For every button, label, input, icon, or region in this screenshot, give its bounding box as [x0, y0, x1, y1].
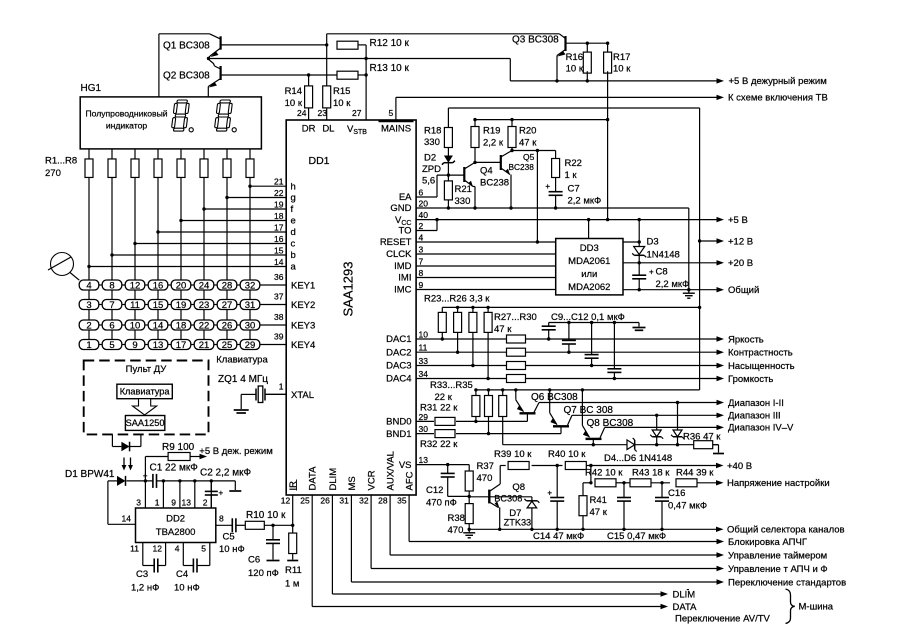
svg-text:10 нФ: 10 нФ	[174, 583, 200, 594]
svg-text:Q1 BC308: Q1 BC308	[163, 40, 210, 51]
svg-text:32: 32	[245, 281, 256, 292]
svg-text:2,2 мкФ: 2,2 мкФ	[656, 279, 690, 290]
svg-text:BC238: BC238	[509, 162, 535, 172]
svg-text:11: 11	[130, 300, 140, 311]
svg-text:MAINS: MAINS	[381, 124, 411, 135]
svg-text:VS: VS	[399, 460, 412, 471]
svg-text:DAC3: DAC3	[386, 361, 411, 372]
svg-text:MS: MS	[347, 476, 358, 490]
svg-text:+: +	[545, 182, 550, 191]
svg-text:470 пФ: 470 пФ	[426, 498, 457, 509]
svg-text:22: 22	[274, 188, 284, 198]
svg-text:9: 9	[171, 498, 176, 508]
svg-text:4: 4	[175, 544, 180, 554]
svg-text:4: 4	[419, 233, 424, 243]
svg-text:10 к: 10 к	[566, 64, 584, 75]
svg-text:b: b	[291, 250, 296, 261]
svg-text:6: 6	[109, 321, 114, 332]
svg-text:R37: R37	[477, 461, 494, 472]
svg-text:ZQ1 4 МГц: ZQ1 4 МГц	[218, 374, 268, 385]
svg-text:1,2 нФ: 1,2 нФ	[131, 583, 159, 594]
svg-text:BND1: BND1	[386, 429, 411, 440]
svg-text:DLIM: DLIM	[328, 468, 339, 491]
svg-text:IR: IR	[288, 481, 299, 491]
svg-text:330: 330	[424, 137, 440, 148]
svg-text:12: 12	[130, 281, 141, 292]
svg-text:DAC2: DAC2	[386, 347, 411, 358]
svg-text:a: a	[291, 262, 297, 273]
svg-text:+5 В дежурный режим: +5 В дежурный режим	[729, 76, 827, 87]
svg-text:AFC: AFC	[405, 471, 416, 490]
svg-text:SAA1293: SAA1293	[341, 262, 356, 317]
svg-text:BC238: BC238	[480, 177, 509, 188]
svg-text:Напряжение настройки: Напряжение настройки	[727, 478, 830, 489]
svg-text:5: 5	[389, 108, 394, 118]
svg-text:Общий селектора каналов: Общий селектора каналов	[727, 525, 845, 536]
svg-text:7: 7	[109, 300, 114, 311]
svg-text:3: 3	[419, 245, 424, 255]
svg-text:+5 В: +5 В	[728, 215, 748, 226]
svg-text:KEY1: KEY1	[291, 280, 315, 291]
svg-text:19: 19	[176, 300, 187, 311]
svg-text:47 к: 47 к	[590, 507, 608, 518]
svg-text:R33...R35: R33...R35	[430, 380, 473, 391]
svg-text:IMD: IMD	[394, 261, 412, 272]
svg-text:R15: R15	[333, 86, 350, 97]
svg-text:17: 17	[274, 223, 284, 233]
svg-text:12: 12	[281, 496, 291, 506]
svg-text:D1 BPW41: D1 BPW41	[65, 469, 115, 480]
svg-text:g: g	[291, 193, 296, 204]
svg-text:R17: R17	[613, 52, 630, 63]
svg-text:Пульт ДУ: Пульт ДУ	[126, 364, 168, 375]
svg-text:Блокировка АПЧГ: Блокировка АПЧГ	[728, 537, 807, 548]
svg-text:29: 29	[245, 340, 256, 351]
svg-text:индикатор: индикатор	[106, 121, 148, 131]
svg-text:+5 В деж. режим: +5 В деж. режим	[199, 446, 272, 457]
svg-text:DAC1: DAC1	[386, 334, 411, 345]
svg-text:MDA2061: MDA2061	[568, 256, 610, 267]
svg-text:1N4148: 1N4148	[647, 250, 680, 261]
svg-text:470: 470	[448, 525, 464, 536]
svg-text:12: 12	[153, 544, 163, 554]
svg-text:+: +	[219, 489, 224, 498]
svg-text:h: h	[291, 181, 296, 192]
svg-text:35: 35	[397, 496, 407, 506]
svg-text:R18: R18	[424, 126, 441, 137]
svg-text:1: 1	[86, 340, 91, 351]
svg-text:2: 2	[419, 221, 424, 231]
svg-text:ZPD: ZPD	[422, 164, 441, 175]
svg-text:+: +	[547, 489, 552, 498]
svg-text:+20 В: +20 В	[728, 258, 753, 269]
svg-text:10: 10	[419, 330, 429, 340]
svg-text:13: 13	[419, 455, 429, 465]
svg-text:16: 16	[274, 234, 284, 244]
svg-text:R27...R30: R27...R30	[494, 312, 537, 323]
svg-text:27: 27	[352, 108, 362, 118]
svg-text:XTAL: XTAL	[291, 390, 314, 401]
svg-text:C1 22 мкФ: C1 22 мкФ	[150, 463, 199, 474]
svg-text:2,2 к: 2,2 к	[483, 138, 504, 149]
svg-text:D2: D2	[424, 153, 436, 164]
svg-text:DLIM: DLIM	[673, 589, 696, 600]
svg-text:330: 330	[455, 196, 471, 207]
svg-text:30: 30	[419, 424, 429, 434]
svg-text:Q4: Q4	[480, 166, 493, 177]
svg-text:Яркость: Яркость	[728, 334, 764, 345]
svg-text:R1...R8: R1...R8	[45, 156, 77, 167]
svg-text:28: 28	[378, 496, 388, 506]
svg-text:5: 5	[201, 544, 206, 554]
svg-text:18: 18	[274, 211, 284, 221]
svg-text:VCR: VCR	[367, 470, 378, 490]
svg-text:37: 37	[274, 292, 284, 302]
svg-text:C4: C4	[176, 569, 188, 580]
svg-text:120 пФ: 120 пФ	[248, 568, 279, 579]
svg-text:Клавиатура: Клавиатура	[216, 355, 268, 366]
svg-text:DAC4: DAC4	[386, 374, 411, 385]
svg-text:DATA: DATA	[673, 602, 698, 613]
svg-text:e: e	[291, 216, 296, 227]
svg-text:Q6 BC308: Q6 BC308	[531, 392, 578, 403]
svg-text:R23...R26 3,3 к: R23...R26 3,3 к	[424, 294, 490, 305]
svg-text:1 м: 1 м	[285, 579, 299, 590]
svg-text:R9 100: R9 100	[162, 442, 195, 453]
svg-text:1: 1	[279, 382, 284, 392]
svg-text:18: 18	[176, 321, 187, 332]
svg-text:DD3: DD3	[580, 243, 599, 254]
svg-text:R39 10 к: R39 10 к	[494, 449, 532, 460]
svg-text:23: 23	[199, 300, 210, 311]
svg-text:11: 11	[419, 343, 428, 353]
svg-text:C2 2,2 мкФ: C2 2,2 мкФ	[200, 468, 251, 479]
svg-text:R20: R20	[519, 126, 536, 137]
svg-text:CLCK: CLCK	[386, 249, 412, 260]
svg-text:10 нФ: 10 нФ	[219, 544, 245, 555]
svg-text:c: c	[291, 239, 296, 250]
svg-text:24: 24	[297, 108, 307, 118]
svg-text:8: 8	[419, 268, 424, 278]
svg-text:Клавиатура: Клавиатура	[120, 387, 171, 397]
svg-text:IMI: IMI	[398, 273, 411, 284]
svg-text:10: 10	[130, 321, 141, 332]
svg-text:Общий: Общий	[728, 285, 759, 296]
svg-text:10 к: 10 к	[613, 64, 631, 75]
svg-text:23: 23	[318, 108, 328, 118]
svg-text:22 к: 22 к	[435, 392, 453, 403]
svg-text:DD2: DD2	[166, 514, 185, 525]
svg-text:4: 4	[86, 281, 91, 292]
svg-text:34: 34	[419, 369, 429, 379]
svg-text:3: 3	[136, 498, 141, 508]
svg-text:31: 31	[245, 300, 256, 311]
svg-text:Диапазон III: Диапазон III	[728, 411, 781, 422]
svg-text:Q8: Q8	[512, 482, 525, 493]
svg-text:или: или	[581, 269, 597, 280]
svg-text:D3: D3	[647, 237, 659, 248]
svg-text:2: 2	[203, 498, 208, 508]
svg-text:26: 26	[222, 321, 233, 332]
svg-text:BND0: BND0	[386, 417, 411, 428]
svg-text:Переключение стандартов: Переключение стандартов	[728, 577, 846, 588]
svg-text:R13 10 к: R13 10 к	[370, 63, 410, 74]
svg-text:BC308: BC308	[494, 493, 522, 503]
svg-text:R12 10 к: R12 10 к	[370, 38, 410, 49]
svg-text:EA: EA	[399, 192, 412, 203]
svg-text:21: 21	[199, 340, 210, 351]
svg-text:3: 3	[86, 300, 91, 311]
svg-text:R31 22 к: R31 22 к	[420, 403, 458, 414]
svg-text:15: 15	[274, 246, 284, 256]
svg-text:9: 9	[419, 280, 424, 290]
svg-text:17: 17	[176, 340, 187, 351]
svg-text:+: +	[143, 472, 148, 481]
svg-text:8: 8	[219, 514, 224, 524]
svg-text:MDA2062: MDA2062	[568, 282, 610, 293]
svg-text:24: 24	[199, 281, 210, 292]
svg-text:14: 14	[122, 514, 132, 524]
svg-text:Насыщенность: Насыщенность	[728, 361, 795, 372]
svg-text:d: d	[291, 227, 296, 238]
svg-text:Диапазон I-II: Диапазон I-II	[728, 398, 784, 409]
svg-text:30: 30	[245, 321, 256, 332]
svg-text:31: 31	[339, 496, 349, 506]
svg-text:+40 В: +40 В	[727, 461, 752, 472]
svg-text:11: 11	[130, 544, 139, 554]
svg-text:Q5: Q5	[523, 152, 535, 162]
svg-text:270: 270	[45, 168, 61, 179]
svg-text:R44 39 к: R44 39 к	[676, 467, 714, 478]
svg-text:2,2 мкФ: 2,2 мкФ	[568, 196, 602, 207]
svg-text:f: f	[291, 204, 294, 215]
svg-text:47 к: 47 к	[519, 138, 537, 149]
svg-text:KEY3: KEY3	[291, 320, 315, 331]
svg-text:26: 26	[320, 496, 330, 506]
svg-text:DD1: DD1	[309, 155, 330, 167]
svg-text:0,47 мкФ: 0,47 мкФ	[668, 501, 707, 512]
svg-text:38: 38	[274, 312, 284, 322]
svg-text:21: 21	[274, 177, 284, 187]
svg-text:AUX/VAL: AUX/VAL	[386, 451, 397, 490]
svg-text:SAA1250: SAA1250	[126, 418, 165, 428]
svg-text:C3: C3	[136, 569, 148, 580]
svg-text:Переключение AV/TV: Переключение AV/TV	[675, 614, 771, 625]
svg-text:R40 10 к: R40 10 к	[548, 449, 586, 460]
svg-text:C14 47 мкФ: C14 47 мкФ	[533, 531, 584, 542]
svg-text:KEY2: KEY2	[291, 300, 315, 311]
svg-text:10 к: 10 к	[285, 98, 303, 109]
svg-text:DATA: DATA	[308, 466, 319, 491]
svg-text:13: 13	[182, 498, 192, 508]
svg-text:39: 39	[274, 332, 284, 342]
svg-text:6: 6	[419, 188, 424, 198]
svg-text:15: 15	[153, 300, 164, 311]
svg-text:Диапазон IV–V: Диапазон IV–V	[728, 423, 794, 434]
svg-text:+12 В: +12 В	[728, 236, 753, 247]
svg-text:Q3 BC308: Q3 BC308	[512, 35, 559, 46]
svg-text:R19: R19	[483, 126, 500, 137]
svg-text:36: 36	[274, 272, 284, 282]
svg-text:Q7 BC 308: Q7 BC 308	[564, 405, 614, 416]
svg-text:1: 1	[155, 498, 160, 508]
svg-text:Громкость: Громкость	[728, 374, 773, 385]
svg-text:C5: C5	[223, 532, 235, 543]
svg-text:D4...D6 1N4148: D4...D6 1N4148	[604, 453, 672, 464]
svg-text:R41: R41	[590, 495, 607, 506]
svg-text:5: 5	[109, 340, 114, 351]
svg-text:28: 28	[222, 281, 233, 292]
svg-text:Q2 BC308: Q2 BC308	[163, 71, 210, 82]
svg-text:16: 16	[153, 281, 164, 292]
svg-text:2: 2	[86, 321, 91, 332]
svg-text:R22: R22	[565, 158, 582, 169]
svg-text:27: 27	[222, 300, 233, 311]
svg-text:C8: C8	[656, 267, 668, 278]
svg-text:R32 22 к: R32 22 к	[420, 439, 458, 450]
svg-text:IMC: IMC	[394, 285, 412, 296]
svg-text:TO: TO	[398, 226, 411, 237]
svg-text:14: 14	[274, 257, 284, 267]
svg-text:R14: R14	[285, 86, 302, 97]
svg-text:DL: DL	[322, 124, 334, 135]
svg-text:RESET: RESET	[380, 237, 412, 248]
svg-text:33: 33	[419, 356, 429, 366]
svg-text:22: 22	[199, 321, 210, 332]
svg-text:R21: R21	[455, 184, 472, 195]
svg-text:ZTK33: ZTK33	[504, 517, 532, 527]
svg-text:C6: C6	[248, 555, 260, 566]
svg-text:М-шина: М-шина	[799, 602, 834, 613]
svg-text:C16: C16	[668, 488, 685, 499]
svg-text:TBA2800: TBA2800	[156, 527, 196, 538]
svg-text:13: 13	[153, 340, 164, 351]
svg-text:C12: C12	[426, 485, 443, 496]
svg-text:7: 7	[419, 257, 424, 267]
svg-text:20: 20	[176, 281, 187, 292]
svg-text:R10 10 к: R10 10 к	[246, 510, 286, 521]
svg-text:32: 32	[359, 496, 369, 506]
svg-text:25: 25	[300, 496, 310, 506]
svg-text:Управление таймером: Управление таймером	[728, 550, 827, 561]
svg-text:C15 0,47 мкФ: C15 0,47 мкФ	[607, 531, 666, 542]
svg-text:40: 40	[419, 210, 429, 220]
svg-text:R11: R11	[285, 565, 302, 576]
svg-text:R38: R38	[448, 513, 465, 524]
svg-text:Полупроводниковый: Полупроводниковый	[85, 109, 167, 119]
svg-text:8: 8	[109, 281, 114, 292]
svg-text:1 к: 1 к	[565, 170, 578, 181]
svg-text:20: 20	[419, 199, 429, 209]
svg-text:R43 18 к: R43 18 к	[632, 467, 670, 478]
svg-text:DR: DR	[302, 124, 316, 135]
svg-text:R16: R16	[566, 52, 583, 63]
svg-text:К схеме включения ТВ: К схеме включения ТВ	[728, 93, 828, 104]
svg-text:Управление т АПЧ и Ф: Управление т АПЧ и Ф	[728, 564, 828, 575]
svg-text:KEY4: KEY4	[291, 340, 315, 351]
svg-text:GND: GND	[390, 203, 411, 214]
svg-text:HG1: HG1	[81, 83, 102, 94]
svg-text:Контрастность: Контрастность	[728, 348, 793, 359]
svg-text:9: 9	[132, 340, 137, 351]
svg-text:14: 14	[153, 321, 164, 332]
svg-text:+: +	[649, 268, 654, 277]
svg-text:470: 470	[477, 473, 493, 484]
svg-text:47 к: 47 к	[494, 324, 512, 335]
svg-text:10 к: 10 к	[333, 98, 351, 109]
svg-text:19: 19	[274, 200, 284, 210]
svg-text:R42 10 к: R42 10 к	[585, 467, 623, 478]
svg-text:5,6: 5,6	[422, 176, 435, 187]
svg-text:C7: C7	[568, 184, 580, 195]
svg-text:25: 25	[222, 340, 233, 351]
